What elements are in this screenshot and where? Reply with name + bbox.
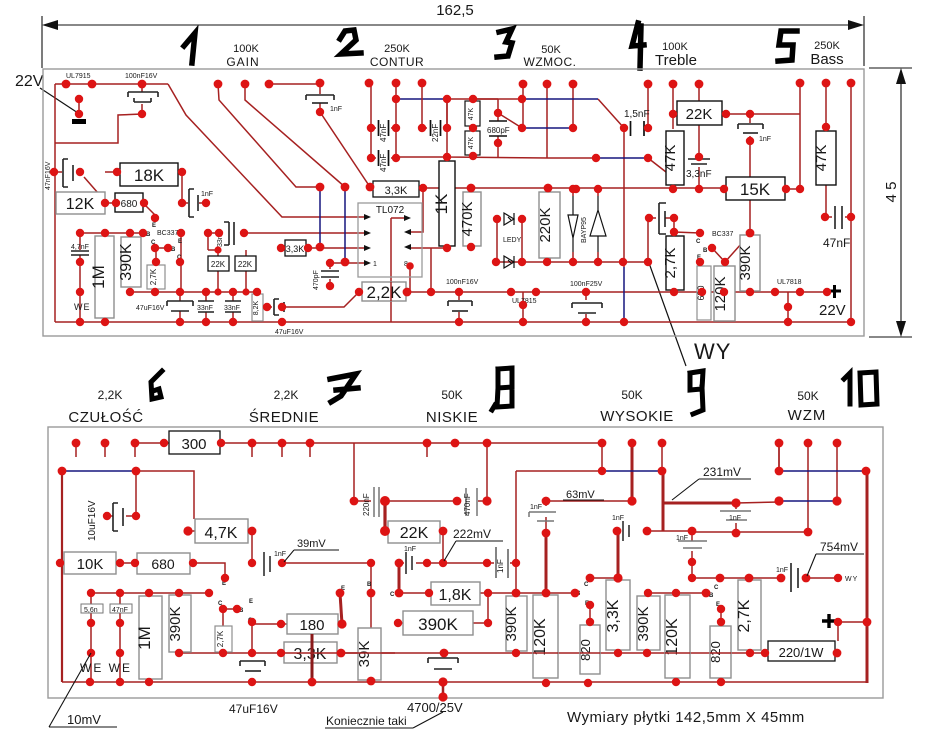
wire: y501 to 470nF: [385, 500, 487, 502]
svg-text:231mV: 231mV: [703, 465, 741, 479]
wire: mid rail y653: [179, 652, 768, 654]
svg-text:Treble: Treble: [655, 52, 697, 69]
svg-text:22V: 22V: [15, 73, 44, 90]
capacitor 47nF contur plates a: [379, 120, 389, 136]
svg-text:300: 300: [181, 436, 206, 453]
wire: 10K 680 row y563: [60, 563, 225, 578]
svg-text:50K: 50K: [621, 388, 642, 402]
svg-text:12K: 12K: [66, 196, 95, 213]
wire: 180 left trace: [252, 623, 342, 625]
svg-text:22K: 22K: [211, 260, 226, 269]
svg-text:E: E: [178, 239, 182, 245]
wire: 22K pair stubs: [208, 250, 246, 292]
wire: 63mV row: [546, 500, 632, 502]
wire: 47K small stubs: [472, 99, 474, 156]
wire: 390K-r bottom / out row y292 right: [674, 291, 827, 293]
top board outline: [43, 69, 864, 336]
svg-text:4700/25V: 4700/25V: [407, 700, 463, 715]
wire: 220K stubs: [549, 188, 551, 262]
svg-text:470nF: 470nF: [463, 493, 472, 516]
wire: C row to 3,3K: [590, 577, 618, 579]
svg-text:10mV: 10mV: [67, 712, 101, 727]
wire: 10uF16V branch: [107, 471, 136, 516]
svg-text:390K: 390K: [635, 606, 652, 641]
resistor 390K (bottom left): [169, 595, 191, 652]
svg-text:B: B: [367, 582, 372, 588]
svg-text:39K: 39K: [356, 641, 373, 668]
wire: plus node: [838, 622, 867, 641]
capacitor 680pF: [489, 121, 507, 136]
wire: pot stubs czulosc: [76, 443, 135, 457]
op-amp U1 TL072: [358, 203, 422, 277]
svg-text:CZUŁOŚĆ: CZUŁOŚĆ: [68, 408, 143, 426]
wire: mid rail through 39K: [345, 652, 395, 654]
wire: TL072 right pin traces: [391, 188, 447, 322]
wire: pin trace over 2,2K: [390, 282, 392, 301]
pot number 9: [690, 371, 703, 414]
wire: 22K treble out: [726, 113, 800, 115]
svg-text:22V: 22V: [819, 302, 846, 319]
capacitor 10uF16V: [113, 503, 123, 531]
svg-text:C: C: [390, 592, 395, 598]
capacitor 22nF plates: [431, 120, 441, 136]
capacitor 47uF16V (bottom left): [240, 661, 265, 671]
capacitor 1nF (output): [791, 563, 798, 592]
wire: x800 vertical: [799, 83, 801, 189]
wire: wzm stubs: [779, 443, 837, 501]
svg-text:WE WE: WE WE: [80, 661, 132, 675]
resistor 2,2K: [362, 282, 406, 301]
svg-text:E: E: [152, 223, 156, 229]
dimension arrowheads right: [896, 68, 906, 337]
svg-text:390K: 390K: [503, 606, 520, 641]
svg-text:220nF: 220nF: [362, 493, 371, 516]
wire: mid rail through 3,3K: [284, 652, 337, 654]
capacitor 1nF (niskie out): [496, 547, 508, 578]
pot number 7: [330, 374, 358, 402]
resistor 470K: [463, 192, 481, 246]
junction pads bottom rails: [86, 649, 842, 702]
resistor 8,2K: [252, 294, 263, 321]
resistor 390K (left): [121, 237, 141, 287]
svg-text:C: C: [696, 239, 701, 245]
svg-text:100nF16V: 100nF16V: [446, 279, 479, 286]
bottom board outline: [48, 427, 883, 698]
wire: x808 vertical: [807, 443, 809, 532]
resistor 3,3K (bottom): [284, 642, 337, 663]
wire: bass right vertical: [850, 83, 852, 322]
wire: contur pot stubs: [371, 83, 447, 158]
wire: gain pin3 to 1nF: [269, 83, 320, 85]
resistor 120K (right1): [533, 595, 558, 678]
svg-text:BC337: BC337: [712, 231, 734, 238]
capacitor 1nF (C): [678, 541, 707, 548]
resistor 3,3K (top): [373, 181, 419, 197]
pot number 2: [340, 30, 361, 54]
wire: 220/1W right: [835, 652, 838, 654]
capacitor 47nF (bass): [835, 206, 842, 229]
capacitor 47nF contur plates b: [379, 150, 389, 166]
wire: Q4 collector thick: [398, 563, 401, 593]
svg-text:WY: WY: [845, 576, 858, 583]
wire: row y593 mid: [488, 592, 575, 594]
wire: 180 bottom thick drop: [311, 628, 314, 682]
resistor 12K: [56, 192, 105, 214]
svg-text:TL072: TL072: [376, 205, 405, 216]
svg-text:2,7K: 2,7K: [662, 248, 679, 279]
wire: y471 red mid: [516, 470, 602, 472]
wire: diagonal navy-end to 1,5nF: [598, 99, 624, 128]
svg-text:1nF: 1nF: [530, 504, 542, 511]
resistor 47K (bass): [816, 131, 836, 185]
svg-text:10uF16V: 10uF16V: [87, 500, 98, 541]
wire: Q3 collector to 1,8K: [399, 592, 431, 594]
wire: navy lines bottom board: [62, 443, 866, 501]
resistor 2,7K (right col): [738, 580, 761, 650]
svg-text:390K: 390K: [418, 615, 458, 634]
wire: 180 drop over box: [311, 634, 314, 682]
wire: 4700 cap drop: [442, 682, 445, 697]
svg-text:1nF: 1nF: [676, 535, 688, 542]
svg-text:2,2K: 2,2K: [367, 283, 403, 302]
capacitor C: 100nF16V (top left electrolytic): [128, 92, 158, 102]
resistor 680: [115, 193, 143, 212]
svg-text:15K: 15K: [740, 180, 771, 199]
pot number 6: [151, 371, 162, 399]
svg-text:B: B: [703, 248, 708, 254]
svg-text:470K: 470K: [459, 201, 476, 236]
pot number 5: [778, 31, 797, 61]
resistor 1,8K: [431, 582, 480, 605]
wire: bottom rail y682: [62, 681, 867, 683]
capacitor 4,7nF: [71, 251, 89, 255]
wire: 22K right to cap: [399, 531, 487, 563]
wire: y578 out row: [692, 577, 842, 579]
wire: left supply rail vertical: [54, 84, 56, 322]
wire: x648 vertical: [647, 219, 649, 262]
svg-text:4,7nF: 4,7nF: [71, 244, 89, 251]
svg-text:390K: 390K: [118, 243, 135, 281]
resistor 22K (bottom): [388, 521, 440, 543]
capacitor 47uF16V (2): [274, 299, 284, 315]
svg-text:3,3K: 3,3K: [294, 646, 327, 663]
wire: 1nF(B) row y531: [614, 530, 692, 532]
svg-text:UL7915: UL7915: [66, 73, 91, 80]
resistor 390K (mid): [403, 611, 473, 635]
svg-text:680: 680: [121, 199, 138, 210]
capacitor 33nF (a): [198, 301, 214, 312]
junction pads bottom board mid: [56, 496, 842, 582]
svg-text:754mV: 754mV: [820, 540, 858, 554]
wire: Q6 emitter: [720, 609, 722, 622]
wire: 3,3K small to pin3: [281, 247, 368, 249]
wire: diagonal D 1nF to 3,3K: [320, 112, 370, 187]
svg-text:3,3K: 3,3K: [286, 244, 305, 254]
svg-text:47K: 47K: [468, 107, 475, 120]
wire: 4,7K left pad link: [186, 530, 195, 532]
svg-text:390K: 390K: [167, 606, 184, 641]
svg-text:1nF: 1nF: [201, 191, 213, 198]
svg-text:820: 820: [578, 639, 593, 661]
wire: Q3 emitter thick: [340, 593, 342, 624]
diode D1 BAYP95: [568, 196, 578, 252]
svg-text:WE: WE: [74, 302, 91, 312]
wire: 12K-680 row y203: [105, 203, 156, 218]
svg-text:18K: 18K: [134, 166, 165, 185]
svg-text:47uF16V: 47uF16V: [229, 702, 278, 716]
svg-text:2,7K: 2,7K: [149, 268, 158, 285]
wire: UL7818 stub: [787, 292, 789, 322]
junction pads top board row y84: [62, 79, 856, 89]
svg-text:E: E: [249, 599, 253, 605]
svg-text:390K: 390K: [737, 245, 754, 280]
svg-text:Bass: Bass: [810, 51, 843, 68]
wire: 2,2K out row y292: [406, 291, 674, 293]
wire: 47nF bass pads: [825, 216, 851, 218]
svg-text:33nF: 33nF: [224, 305, 240, 312]
svg-text:NISKIE: NISKIE: [426, 409, 478, 426]
resistor 2,7K (bottom left): [215, 626, 232, 652]
capacitor 47nF (we): [110, 604, 132, 613]
svg-text:1: 1: [373, 261, 377, 268]
svg-text:120K: 120K: [532, 618, 549, 656]
op-amp pins left: [364, 214, 371, 266]
wire: electrolytic stubs on y292: [459, 292, 586, 322]
svg-text:1K: 1K: [432, 193, 451, 214]
wire: x516 long vertical: [515, 471, 517, 593]
wire: 22K left pad: [385, 530, 388, 532]
resistor 120K (right2): [665, 595, 690, 678]
resistor 47K (small a): [465, 101, 480, 126]
wire: long row y188: [423, 188, 800, 189]
resistor 220K: [539, 192, 560, 258]
svg-text:4 5: 4 5: [883, 182, 900, 203]
svg-text:CONTUR: CONTUR: [370, 55, 424, 69]
wire: top rail y84: [55, 83, 168, 85]
wire: 1nF treble stubs: [749, 114, 751, 141]
wire: Q3 base down to 39K: [370, 593, 372, 628]
wire: base row right y593: [648, 592, 706, 594]
svg-text:222mV: 222mV: [453, 527, 491, 541]
wire: 1nF(A) to base thick: [545, 533, 548, 593]
wire: 47uF16V drop: [179, 292, 181, 322]
wire: navy vertical x624 lower: [623, 262, 625, 267]
wire: bottom rail y322: [55, 321, 851, 323]
wire: 47nF16V input cap to 18K: [54, 172, 105, 201]
pot number 4: [632, 23, 644, 68]
capacitor 1,5nF: [631, 121, 645, 136]
wire: 680pF stubs: [473, 99, 522, 157]
svg-text:47K: 47K: [813, 145, 830, 172]
svg-text:47nF: 47nF: [823, 236, 850, 250]
resistor 4,7K: [195, 519, 248, 543]
svg-text:100K: 100K: [233, 43, 259, 55]
svg-text:10K: 10K: [77, 556, 104, 573]
wire: diagonal B gain wiper: [218, 84, 320, 187]
wire: 4,7nF cap chain down to WE: [79, 233, 81, 322]
resistor 120K: [714, 266, 735, 321]
svg-text:680: 680: [151, 556, 175, 572]
svg-text:WZMOC.: WZMOC.: [524, 55, 577, 69]
svg-text:470pF: 470pF: [313, 270, 320, 290]
wire: 1nF(A) cap stubs: [545, 501, 547, 533]
svg-text:47uF16V: 47uF16V: [136, 305, 165, 312]
capacitor 100nF25V: [572, 303, 602, 313]
wire: mid rail over right resistors: [533, 652, 731, 654]
wire: treble mid stub: [672, 84, 674, 129]
svg-text:1M: 1M: [135, 626, 154, 650]
wire: bay p95 stubs: [573, 189, 598, 262]
capacitor 1nF (2,7K right): [659, 203, 666, 234]
svg-text:1nF: 1nF: [612, 515, 624, 522]
wire: top rail y443: [135, 442, 602, 444]
resistor 18K: [120, 163, 178, 186]
wire: pot stubs srednie/niskie: [252, 443, 427, 457]
svg-text:100nF25V: 100nF25V: [570, 281, 603, 288]
resistor 47K (treble): [666, 131, 684, 185]
pot number 1: [184, 33, 195, 63]
plus mark 22V right: [828, 285, 841, 298]
capacitor 5,6n: [81, 604, 103, 613]
wire: base row left y593: [91, 592, 209, 594]
resistor 680 (bottom): [137, 553, 190, 574]
svg-text:1M: 1M: [89, 265, 108, 289]
resistor 15K: [726, 177, 785, 200]
svg-text:3,3K: 3,3K: [605, 599, 622, 632]
svg-text:1nF: 1nF: [776, 567, 788, 574]
wire: UL7915 stub: [78, 99, 80, 114]
svg-text:100nF16V: 100nF16V: [125, 73, 158, 80]
svg-text:2,2K: 2,2K: [98, 388, 123, 402]
wire: x487 vertical: [486, 443, 488, 501]
resistor 22K (b): [235, 256, 256, 271]
wire: 220nF net: [354, 443, 385, 501]
svg-text:2,7K: 2,7K: [216, 630, 225, 647]
svg-text:47K: 47K: [662, 145, 679, 172]
svg-text:UL7818: UL7818: [777, 279, 802, 286]
wire: 47uF16V(2) link to 2,2K: [267, 292, 359, 307]
wire: 1nF to 390K-r: [749, 141, 751, 233]
svg-text:162,5: 162,5: [436, 2, 474, 19]
svg-text:180: 180: [299, 617, 324, 634]
svg-text:1,5nF: 1,5nF: [624, 109, 650, 120]
pot number 10: [844, 372, 877, 405]
svg-text:22K: 22K: [238, 260, 253, 269]
svg-text:47uF16V: 47uF16V: [275, 329, 304, 336]
capacitor 3,3nF: [688, 159, 710, 164]
wire: 1,8K right to 390K: [473, 593, 488, 623]
wire: 3,3nF bottom stub: [698, 167, 700, 189]
wire: 390K mid left pad: [398, 622, 403, 624]
resistor 390K (right): [740, 235, 760, 291]
wire: WE columns: [91, 593, 120, 682]
wire: 1nF cap stubs (top mid): [319, 84, 321, 112]
resistor 820 (left): [580, 625, 600, 674]
svg-text:1nF: 1nF: [729, 515, 741, 522]
svg-text:47K: 47K: [468, 136, 475, 149]
resistor 3,3K (small, pin3): [285, 240, 306, 256]
capacitor 1nF (B): [623, 521, 629, 541]
svg-text:4,7K: 4,7K: [205, 525, 238, 542]
wire: y532 right: [692, 531, 808, 533]
capacitor 33nF (b): [225, 301, 241, 312]
capacitor 470pF: [321, 271, 339, 277]
svg-text:3,3nF: 3,3nF: [686, 169, 712, 180]
resistor 2,7K (left small): [147, 265, 165, 289]
svg-text:WZM: WZM: [788, 407, 827, 424]
wire: 33nF pair stubs: [206, 292, 233, 322]
capacitor 1nF (gain top): [306, 95, 334, 103]
svg-text:C: C: [714, 585, 719, 591]
wire: 1nF(D) stubs: [735, 503, 737, 533]
pot number 3: [497, 29, 512, 57]
wire: contour to 4,7K: [136, 471, 194, 519]
dimension arrowheads top: [42, 20, 864, 30]
junction pads lower mid region: [278, 185, 855, 326]
capacitor 470nF: [466, 488, 477, 516]
svg-text:50K: 50K: [797, 389, 818, 403]
wire: 18K pads row: [105, 172, 182, 203]
capacitor 220nF: [374, 487, 379, 517]
wire: treble right stub to 3,3nF: [698, 84, 700, 157]
svg-text:250K: 250K: [384, 43, 410, 55]
wire: diagonal C gain right: [245, 84, 345, 187]
capacitor 47uF16V (mid): [428, 658, 458, 669]
wire: 1nF(C) stubs: [691, 531, 693, 578]
wire: y503 thin to navy: [736, 502, 779, 503]
wire: 220nF to 22K thick: [383, 501, 386, 531]
resistor 10K: [64, 552, 116, 574]
svg-text:LEDY: LEDY: [503, 237, 522, 244]
svg-text:50K: 50K: [441, 388, 462, 402]
wire: 1,5nF right to treble pot: [647, 84, 649, 128]
resistor 22K (treble): [677, 101, 722, 125]
svg-text:ŚREDNIE: ŚREDNIE: [249, 408, 319, 426]
svg-text:1nF: 1nF: [274, 551, 286, 558]
svg-text:WY: WY: [694, 339, 731, 364]
resistor 1M: [95, 236, 114, 318]
resistor 820 (right): [710, 626, 731, 678]
wire: Q2b links: [223, 609, 252, 653]
svg-text:Koniecznie taki: Koniecznie taki: [326, 714, 407, 728]
svg-text:3,3K: 3,3K: [385, 185, 408, 197]
dimension line 162,5 (top): [42, 16, 864, 68]
diode LED1: [504, 213, 514, 225]
op-amp pins right: [404, 215, 411, 250]
svg-text:33nF: 33nF: [197, 305, 213, 312]
pot number 8: [492, 368, 512, 410]
plus mark bottom: [822, 614, 836, 628]
svg-text:120K: 120K: [664, 618, 681, 656]
resistor 22K (a): [208, 256, 229, 271]
resistor 180: [287, 614, 338, 634]
svg-text:1nF: 1nF: [330, 106, 342, 113]
wire: diagonal y157 to 47K treble: [648, 158, 666, 172]
capacitor 1nF (D): [720, 511, 751, 520]
wire: wzmoc pot stubs: [447, 84, 573, 158]
svg-text:5,6n: 5,6n: [84, 607, 98, 614]
wire: cap stubs y563: [487, 562, 516, 564]
svg-text:1nF: 1nF: [404, 546, 416, 553]
dimension line 45 (right): [869, 68, 912, 337]
svg-text:63mV: 63mV: [566, 489, 595, 501]
svg-text:220K: 220K: [537, 207, 554, 242]
svg-text:22nF: 22nF: [431, 124, 440, 142]
resistor 1K: [439, 161, 455, 246]
svg-text:Wymiary płytki 142,5mm X 45mm: Wymiary płytki 142,5mm X 45mm: [567, 709, 805, 726]
wire: 1nF (18K) cap stubs: [182, 202, 206, 204]
capacitor 100nF16V (bottom mid): [448, 301, 472, 311]
